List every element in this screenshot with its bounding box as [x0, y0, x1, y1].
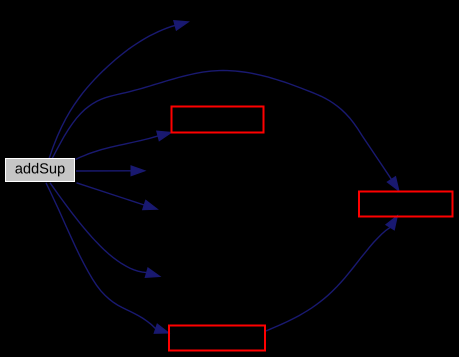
node right red box (truncated callee): [359, 192, 453, 217]
node top red box (truncated callee): [172, 107, 264, 133]
wire edge addSup to hidden node 4: [50, 183, 160, 278]
wire edge bottom red box to right red box: [266, 216, 398, 332]
wire edge addSup to hidden node 3: [77, 183, 158, 210]
wire edge addSup to top red box: [76, 131, 172, 159]
wire edge addSup to right red box (top arc): [52, 71, 399, 192]
wire edge addSup to hidden node 1 (top arrow): [49, 21, 189, 159]
node addSup (current function, grey filled box): [6, 159, 75, 182]
wire edge addSup to bottom red box: [46, 183, 169, 334]
wire edge addSup to hidden node 2 (horizontal arrow): [76, 166, 145, 176]
node bottom red box (truncated callee): [169, 326, 265, 351]
